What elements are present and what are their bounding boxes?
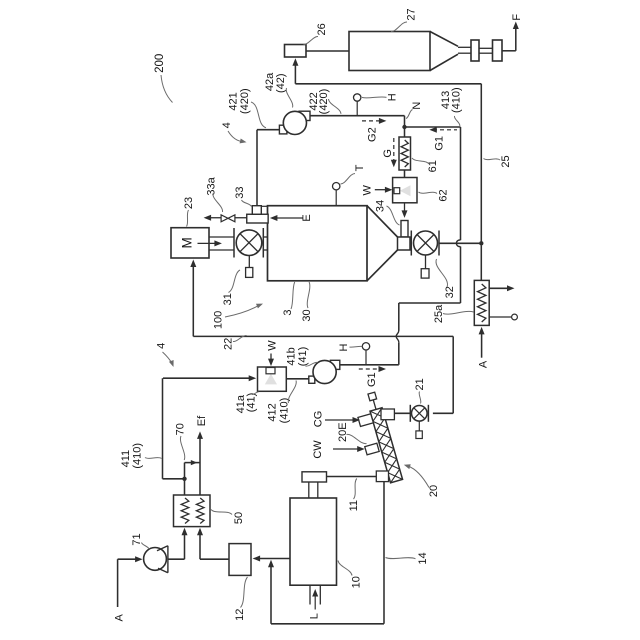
wire M drive arrow shaft: [198, 242, 218, 244]
svg-text:(41): (41): [245, 393, 257, 413]
arrowhead HX 25a outlet: [507, 285, 515, 291]
svg-text:(410): (410): [451, 87, 463, 113]
leader 41a: [252, 392, 259, 395]
leader H upper: [362, 97, 387, 98]
wire HX 25a probe line: [489, 316, 512, 318]
wire to F riser: [502, 50, 516, 52]
arrowhead W into 41a: [268, 359, 274, 367]
wire down to valve 21: [452, 336, 454, 413]
wire W feed into 62: [375, 189, 388, 191]
cone outlet square of dryer: [398, 237, 411, 250]
valve 21 drive box: [416, 431, 422, 439]
junction 411 branch: [182, 477, 186, 481]
leader arrow 20: [408, 466, 429, 488]
svg-text:26: 26: [316, 23, 328, 35]
wire H probe stem: [356, 101, 358, 116]
dryer cone lower edge: [367, 250, 398, 281]
svg-text:32: 32: [444, 286, 456, 298]
conveyor bottom inlet fitting: [376, 471, 388, 482]
motor box 23: [171, 228, 209, 258]
valve 21 left flange: [409, 405, 411, 422]
vessel 10 bottom nozzle right: [319, 585, 321, 604]
svg-text:14: 14: [417, 552, 429, 564]
wire line 25 vertical: [480, 84, 482, 242]
leader 71: [142, 543, 150, 550]
arrowhead G1 upper (left): [429, 127, 437, 133]
wire riser into box 26: [294, 62, 296, 84]
wire cone-outlet pipe top: [458, 46, 471, 48]
wire CG feed: [325, 419, 356, 421]
valve 31 right flange: [262, 228, 264, 258]
wire line 14 vertical: [383, 482, 385, 624]
dashed flow G1 lower: [359, 368, 380, 370]
wire line 411 vertical: [162, 378, 164, 479]
wire 41a to blower 41b: [286, 378, 309, 380]
svg-text:H: H: [387, 93, 399, 101]
wire line 22 riser to M: [192, 263, 194, 337]
arrowhead L (up): [312, 589, 318, 597]
heat exchanger 50 box: [174, 495, 211, 527]
dashed flow G2: [362, 120, 381, 122]
wire blower 41b outlet line: [340, 364, 399, 366]
wire HX 50 left top to Ef header: [184, 463, 186, 495]
wire 421 suction to blower: [257, 129, 279, 131]
wire valve 32 discharge: [439, 242, 481, 244]
leader 25a: [443, 311, 474, 314]
svg-text:62: 62: [438, 189, 450, 201]
dashed flow G down: [393, 138, 395, 162]
conveyor drive box: [368, 392, 377, 401]
leader 42a: [286, 88, 292, 108]
wire airlock pipe bottom: [479, 52, 493, 54]
svg-text:421: 421: [228, 92, 240, 110]
arrowhead on Ef header: [191, 460, 198, 465]
svg-text:33a: 33a: [206, 176, 218, 195]
heater 61 element zigzag: [401, 140, 408, 167]
conveyor top discharge stub: [381, 409, 394, 420]
leader 41b: [306, 362, 318, 366]
wire M shaft lower: [209, 249, 234, 251]
svg-text:Ef: Ef: [196, 415, 208, 426]
box 26 (exhaust treatment): [285, 45, 307, 58]
vessel 10 neck right: [317, 482, 319, 498]
valve 21 stem: [418, 421, 420, 431]
leader 30: [307, 282, 310, 308]
valve 31 drive box: [246, 268, 253, 278]
vessel 27 cone bottom edge: [430, 54, 458, 70]
svg-text:70: 70: [175, 423, 187, 435]
svg-text:(410): (410): [279, 398, 291, 424]
svg-text:(42): (42): [275, 73, 287, 93]
H probe circle (lower): [362, 343, 369, 350]
T probe circle: [333, 183, 340, 190]
wire heater 61 to box 62: [404, 170, 406, 178]
wire Ef header: [185, 462, 201, 464]
heat exchanger 25a box: [474, 280, 489, 325]
junction discharge/line25: [479, 241, 483, 245]
box 12: [229, 544, 251, 576]
valve 33a bowtie: [221, 215, 235, 222]
valve 32 left flange: [410, 231, 412, 256]
rotary airlock flange 2 of 27: [493, 40, 503, 61]
wire box 12 to HX 50: [200, 558, 229, 560]
valve 32 stem: [425, 255, 427, 269]
leader 31: [229, 270, 241, 293]
wire line 25 into HX 25a: [480, 246, 482, 281]
probe circle at HX 25a: [512, 314, 518, 320]
arrowhead of 4 upper: [240, 139, 247, 144]
vessel 10 top nozzle: [302, 472, 327, 482]
leader H lower: [350, 345, 363, 348]
arrowhead into HX 50 left: [182, 528, 188, 536]
svg-text:N: N: [411, 102, 423, 110]
arrowhead Ef (up): [197, 431, 203, 439]
svg-text:(410): (410): [132, 443, 144, 469]
svg-text:(420): (420): [239, 88, 251, 114]
rotary valve 31 circle: [236, 230, 262, 256]
arrowhead into HX 50 right: [197, 528, 203, 536]
valve 32 cross: [417, 235, 434, 252]
leader 3: [291, 282, 295, 309]
arrowhead of 20: [404, 464, 411, 469]
wire line 11: [327, 476, 377, 478]
svg-text:T: T: [354, 164, 366, 171]
feed port fitting on dryer wall: [247, 214, 268, 223]
svg-text:CW: CW: [312, 440, 324, 459]
wire E feed arrow shaft: [274, 217, 302, 219]
leader 421: [251, 102, 266, 128]
svg-text:23: 23: [183, 197, 195, 209]
svg-text:3: 3: [282, 309, 294, 315]
svg-text:30: 30: [301, 309, 313, 321]
wire valve 21 to conveyor: [394, 412, 410, 414]
HX 50 coil right: [196, 498, 204, 524]
wire valve 33a to vent: [208, 217, 221, 219]
arrowhead into box 26: [292, 58, 298, 66]
vessel 27 (bag filter) body: [349, 32, 430, 71]
leader 25: [484, 159, 501, 161]
wire M shaft upper: [209, 236, 234, 238]
leader 27: [391, 22, 407, 32]
svg-text:25: 25: [500, 155, 512, 167]
HX 25a coil zigzag: [478, 284, 486, 322]
arrowhead into box 12: [253, 556, 261, 562]
conveyor drive shaft: [373, 400, 376, 410]
blower 42a circle: [283, 111, 306, 134]
junction node N: [402, 125, 406, 129]
leader 23: [187, 210, 189, 227]
arrowhead of 100: [256, 304, 263, 309]
svg-text:F: F: [511, 14, 523, 21]
valve 32 right flange: [438, 231, 440, 256]
blower 71 wedge: [157, 546, 168, 573]
svg-text:41b: 41b: [286, 347, 298, 365]
arrowhead M drive: [214, 240, 222, 246]
wire A inlet to blower 71: [118, 558, 138, 560]
wire CW feed: [333, 448, 361, 450]
wire line 14 riser: [270, 563, 272, 624]
jog crossing line 22: [396, 331, 399, 343]
svg-text:(41): (41): [297, 347, 309, 367]
spray nozzle in 62: [394, 188, 400, 194]
wire A inlet riser: [117, 559, 119, 607]
valve 31 cross: [240, 234, 258, 252]
wire valve 31 stem: [248, 256, 250, 268]
svg-text:71: 71: [131, 533, 143, 545]
svg-text:W: W: [266, 340, 278, 351]
arrowhead E (left): [270, 215, 278, 221]
rotary airlock flange 1 of 27: [471, 40, 479, 61]
leader 26: [304, 36, 319, 44]
wire valve 31 to vessel upper: [263, 236, 267, 238]
svg-text:50: 50: [233, 512, 245, 524]
svg-text:G2: G2: [366, 127, 378, 142]
pipe 34: [401, 221, 408, 238]
svg-text:33: 33: [234, 186, 246, 198]
wire T probe stem: [335, 190, 337, 206]
valve 21 right flange: [427, 405, 429, 422]
svg-text:W: W: [361, 184, 373, 195]
arrowhead G2: [379, 118, 387, 124]
svg-text:4: 4: [155, 343, 167, 349]
slurry vessel 10: [290, 498, 337, 585]
svg-text:412: 412: [267, 403, 279, 421]
leader arrow 100: [225, 306, 259, 317]
wire L feed: [314, 593, 316, 610]
arrowhead CW: [357, 446, 365, 452]
svg-text:42a: 42a: [264, 72, 276, 91]
svg-text:411: 411: [120, 450, 132, 468]
leader arrow 4 lower: [163, 352, 173, 364]
vessel 10 neck left: [308, 482, 310, 498]
valve 21 circle: [412, 406, 428, 422]
wire up to HX 50 right: [199, 530, 201, 560]
leader 200: [161, 75, 173, 103]
hop of line 413 over discharge: [456, 240, 460, 247]
wire cone-outlet pipe bottom: [458, 52, 471, 54]
wire 413 return down to pump line: [398, 342, 400, 365]
CW port (20E) on conveyor: [365, 443, 379, 455]
rotary valve 32 circle: [414, 231, 438, 255]
leader 70: [180, 436, 184, 460]
leader arrow 4 upper: [228, 131, 244, 142]
arrowhead CG: [353, 417, 361, 423]
leader 22: [233, 335, 247, 341]
arrowhead line 14 into slurry line: [268, 560, 274, 568]
dryer vessel 3 body: [268, 206, 368, 281]
heater 61 box: [399, 137, 411, 170]
leader 411: [145, 458, 162, 459]
svg-text:10: 10: [350, 576, 362, 588]
svg-text:21: 21: [414, 378, 426, 390]
leader N: [406, 110, 413, 119]
wire line 25 top header: [295, 83, 481, 85]
valve 32 drive box: [421, 269, 429, 278]
svg-text:H: H: [338, 343, 350, 351]
wire line 421 riser: [256, 130, 258, 206]
blower 41b outlet box: [330, 360, 339, 369]
wire line 14 horizontal: [271, 623, 384, 625]
leader 10: [338, 561, 352, 576]
wire HX 25a outlet: [489, 287, 508, 289]
leader 412: [288, 381, 296, 404]
leader 14: [386, 558, 416, 559]
blower 71 circle: [144, 548, 167, 571]
svg-text:34: 34: [374, 200, 386, 212]
blower 42a outlet box: [299, 111, 310, 120]
svg-text:12: 12: [234, 609, 246, 621]
leader 62: [419, 192, 438, 194]
wire 26-27: [306, 50, 349, 52]
wire line 413 vertical lower: [460, 247, 462, 304]
leader 33: [242, 200, 252, 207]
leader 21: [419, 392, 421, 404]
svg-text:22: 22: [223, 338, 235, 350]
leader 20E: [347, 434, 367, 443]
screw conveyor 20 duct: [370, 408, 403, 483]
wire HX 50 right top to Ef: [199, 435, 201, 496]
arrowhead of 4 lower: [169, 360, 174, 367]
svg-text:CG: CG: [313, 411, 325, 428]
wire pump71 to HX 50 left: [184, 530, 186, 560]
blower 41b inlet box: [309, 376, 315, 383]
svg-text:A: A: [113, 613, 125, 621]
arrowhead A into HX 25a: [479, 327, 485, 335]
leader 33a: [213, 194, 223, 213]
spray box 41a: [258, 367, 287, 391]
svg-text:M: M: [180, 237, 195, 248]
svg-text:E: E: [301, 214, 313, 221]
wire 413 return horizontal: [399, 302, 461, 304]
wire 62 down to pipe 34: [404, 203, 406, 214]
arrowhead W into 62: [385, 187, 393, 193]
valve 21 cross: [414, 408, 425, 419]
wire line 413 vertical upper: [460, 127, 462, 240]
wire fitting top to vessel corner: [261, 205, 267, 207]
HX 50 coil left: [181, 498, 189, 524]
wire 411 into spray 41a: [163, 377, 252, 379]
leader 11: [354, 479, 357, 500]
svg-text:61: 61: [427, 160, 439, 172]
svg-text:11: 11: [348, 500, 360, 511]
svg-text:20E: 20E: [337, 422, 349, 442]
wire blower 71 outlet: [168, 558, 185, 560]
wire A inlet to HX 25a: [481, 329, 483, 358]
svg-text:4: 4: [221, 122, 233, 128]
spray nozzle in 41a: [266, 368, 275, 374]
H probe circle (upper): [354, 94, 361, 101]
arrowhead into M box: [190, 260, 196, 268]
svg-text:G: G: [382, 149, 394, 158]
valve 31 left flange: [233, 228, 235, 258]
leader T: [341, 174, 356, 185]
spray mist in 41a: [265, 374, 277, 385]
svg-text:100: 100: [213, 311, 225, 329]
vessel 27 cone top edge: [430, 32, 458, 47]
leader 422: [329, 99, 342, 114]
wire 413 return down: [398, 303, 400, 331]
svg-text:(420): (420): [318, 89, 330, 115]
screw flights of conveyor 20: [370, 408, 403, 483]
arrowhead G1 lower: [379, 366, 387, 372]
wire branch to line 411: [163, 478, 185, 480]
blower 42a inlet box: [279, 125, 287, 134]
arrowhead vent (left): [204, 215, 212, 221]
svg-text:G1: G1: [366, 372, 378, 387]
svg-text:27: 27: [406, 8, 418, 20]
arrowhead into blower 71: [135, 556, 143, 562]
leader 61: [412, 158, 429, 164]
wire W into 41a: [270, 354, 272, 362]
dryer cone upper edge: [367, 206, 398, 237]
vessel 10 bottom nozzle left: [309, 585, 311, 604]
svg-text:200: 200: [154, 54, 166, 73]
leader 413: [454, 116, 459, 126]
leader 12: [241, 577, 248, 608]
CG port on conveyor: [358, 414, 373, 427]
spray mist in 62: [400, 185, 411, 196]
dashed flow G1 upper: [433, 129, 457, 131]
svg-text:L: L: [308, 613, 320, 619]
arrowhead F (up): [513, 22, 519, 30]
leader 50: [211, 510, 232, 515]
leader 34: [387, 206, 400, 225]
wire airlock pipe top: [479, 47, 493, 49]
svg-text:A: A: [478, 360, 490, 368]
svg-text:31: 31: [222, 293, 234, 305]
wire line 422 blower to N: [310, 115, 405, 117]
svg-text:20: 20: [428, 485, 440, 497]
wire to valve 21 right: [433, 412, 453, 414]
arrowhead into 41a: [249, 375, 257, 381]
wire N corner down to heater 61: [404, 116, 406, 137]
wire vessel 10 to box 12: [258, 558, 290, 560]
blower 41b circle: [313, 360, 336, 383]
fitting 33 upper box: [252, 206, 261, 215]
arrowhead G (down): [391, 160, 397, 168]
wire H probe stem lower: [365, 350, 367, 365]
arrowhead into pipe 34: [402, 210, 408, 218]
wire line 413 horizontal: [405, 126, 461, 128]
humidifier 62 box: [393, 178, 417, 203]
wire fitting to valve 33a: [235, 217, 247, 219]
svg-text:G1: G1: [434, 136, 446, 151]
wire line 22: [193, 335, 453, 337]
leader 32: [436, 259, 448, 287]
wire valve 31 to vessel lower: [263, 249, 267, 251]
wire F riser: [515, 25, 517, 51]
